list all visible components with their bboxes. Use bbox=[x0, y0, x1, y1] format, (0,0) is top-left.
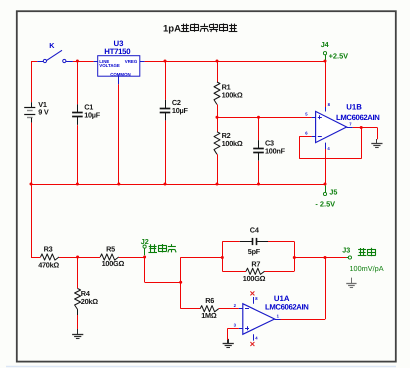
svg-text:6: 6 bbox=[305, 131, 308, 136]
svg-text:COMMON: COMMON bbox=[110, 72, 131, 77]
svg-text:10µF: 10µF bbox=[172, 106, 189, 115]
svg-text:100GΩ: 100GΩ bbox=[102, 259, 125, 268]
svg-text:100nF: 100nF bbox=[265, 147, 286, 156]
svg-text:C4: C4 bbox=[250, 225, 260, 234]
svg-text:R3: R3 bbox=[44, 245, 53, 254]
svg-text:470kΩ: 470kΩ bbox=[38, 261, 59, 270]
svg-text:4: 4 bbox=[327, 146, 330, 151]
svg-text:8: 8 bbox=[328, 102, 331, 107]
svg-text:2: 2 bbox=[234, 303, 237, 308]
svg-text:100kΩ: 100kΩ bbox=[222, 91, 243, 100]
svg-text:R5: R5 bbox=[106, 245, 115, 254]
svg-text:10µF: 10µF bbox=[84, 111, 101, 120]
svg-text:J4: J4 bbox=[321, 40, 329, 49]
svg-text:HT7150: HT7150 bbox=[104, 47, 131, 56]
svg-text:+2.5V: +2.5V bbox=[329, 52, 349, 61]
svg-text:LMC6062AIN: LMC6062AIN bbox=[336, 113, 380, 122]
svg-text:5: 5 bbox=[305, 112, 308, 117]
svg-text:LMC6062AIN: LMC6062AIN bbox=[265, 302, 309, 311]
svg-text:20kΩ: 20kΩ bbox=[81, 297, 98, 306]
svg-text:8: 8 bbox=[255, 296, 258, 301]
svg-text:3: 3 bbox=[234, 323, 237, 328]
svg-text:- 2.5V: - 2.5V bbox=[315, 200, 335, 209]
svg-text:100mV/pA: 100mV/pA bbox=[350, 264, 384, 273]
svg-text:4: 4 bbox=[255, 335, 258, 340]
svg-text:VREG: VREG bbox=[125, 59, 138, 64]
svg-text:5pF: 5pF bbox=[248, 247, 261, 256]
svg-text:1: 1 bbox=[277, 313, 280, 318]
svg-text:100GΩ: 100GΩ bbox=[243, 274, 266, 283]
svg-text:J5: J5 bbox=[329, 188, 337, 197]
svg-text:R7: R7 bbox=[251, 259, 260, 268]
svg-text:J3: J3 bbox=[342, 245, 350, 254]
svg-text:100kΩ: 100kΩ bbox=[222, 139, 243, 148]
svg-text:1pA: 1pA bbox=[163, 24, 181, 35]
svg-text:J2: J2 bbox=[141, 237, 149, 246]
svg-text:VOLTAGE: VOLTAGE bbox=[99, 63, 120, 68]
svg-text:K: K bbox=[49, 41, 55, 50]
svg-text:R6: R6 bbox=[205, 296, 214, 305]
svg-text:1MΩ: 1MΩ bbox=[201, 311, 217, 320]
svg-text:U1B: U1B bbox=[346, 102, 362, 111]
svg-text:9 V: 9 V bbox=[38, 107, 49, 116]
